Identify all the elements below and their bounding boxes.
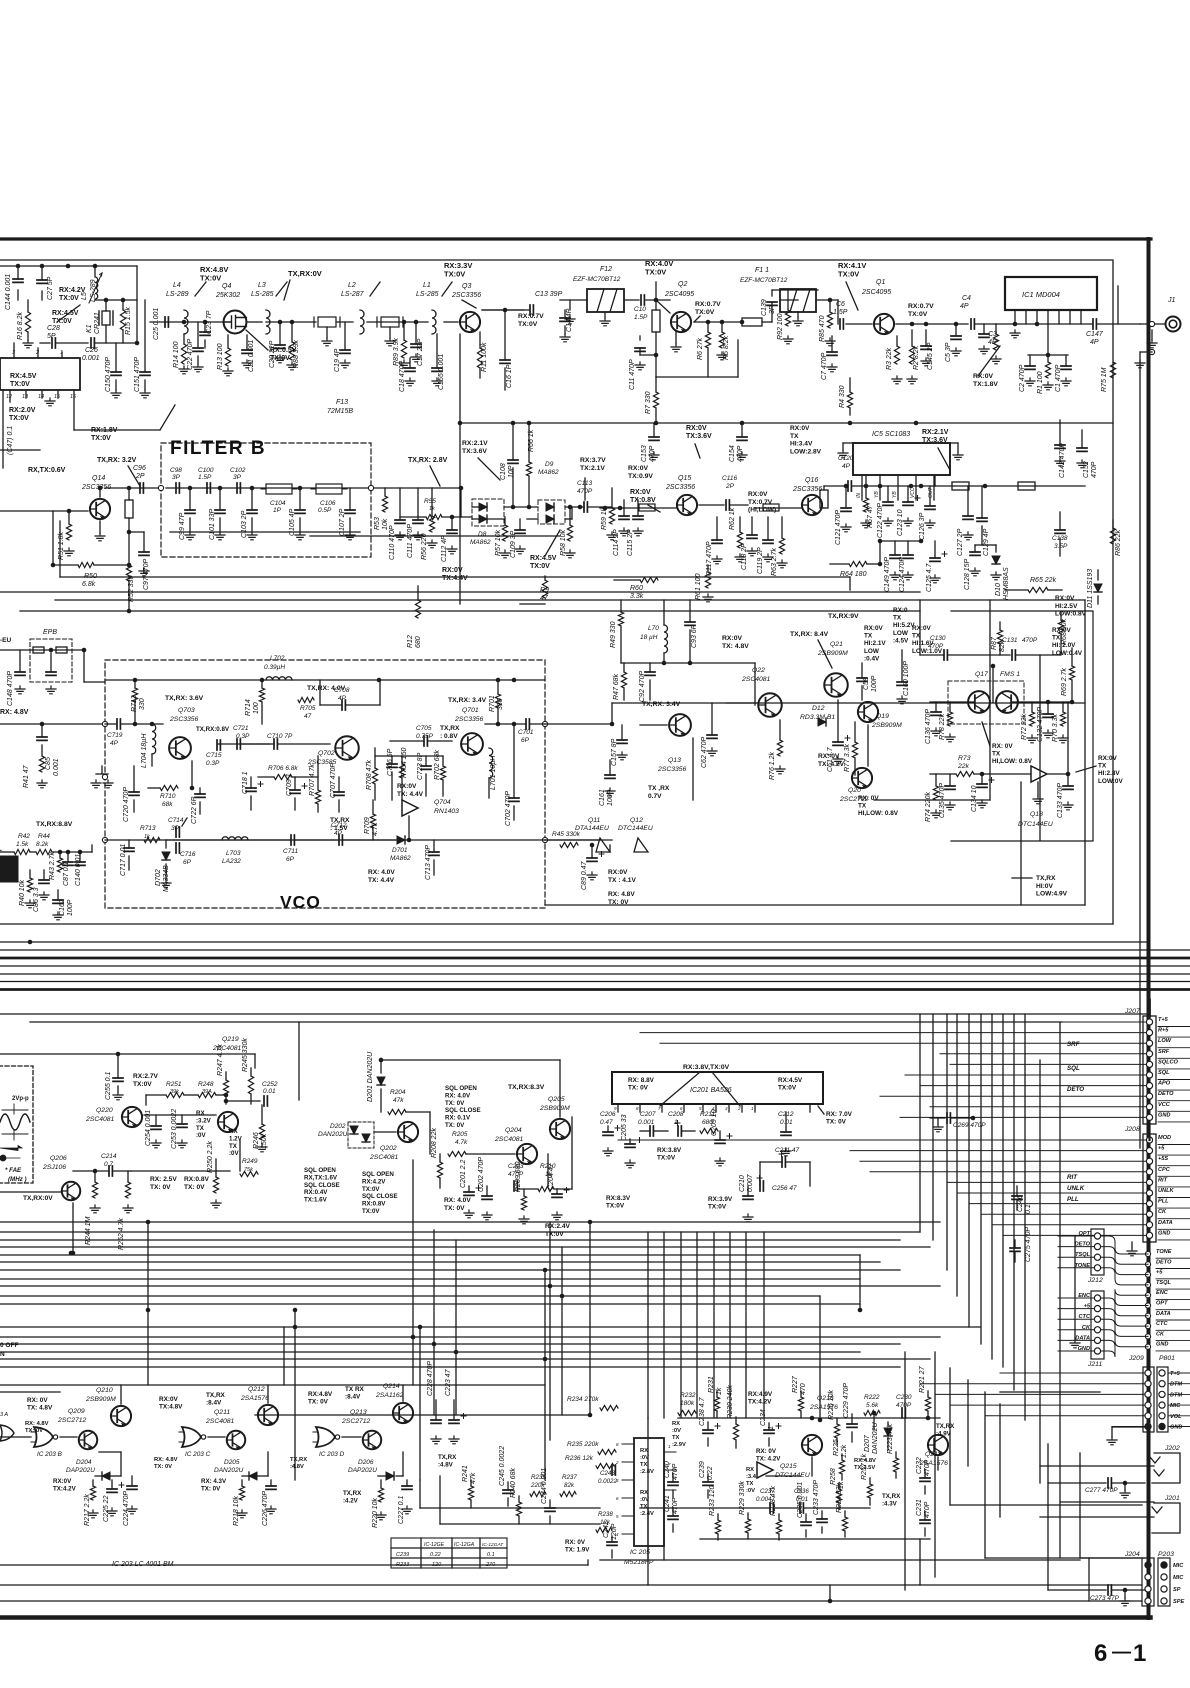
wire left drop xyxy=(2,390,4,468)
resistor R221 xyxy=(927,1391,929,1397)
resistor R2 xyxy=(911,330,913,346)
svg-text:RX:0V: RX:0V xyxy=(442,567,463,574)
svg-text:HSM88AS: HSM88AS xyxy=(1003,567,1010,600)
resistor R40 xyxy=(29,870,31,878)
svg-text:C116: C116 xyxy=(722,475,737,482)
svg-text:0.3P: 0.3P xyxy=(206,760,220,767)
svg-text:0.5P: 0.5P xyxy=(318,507,332,514)
resistor R88 xyxy=(291,322,293,342)
connector J211 pin DATA xyxy=(1094,1337,1100,1343)
svg-text:C702 470P: C702 470P xyxy=(505,791,512,826)
svg-text:2SC2712: 2SC2712 xyxy=(341,1418,371,1425)
capacitor C144 xyxy=(13,279,23,282)
capacitor C139 xyxy=(771,302,773,322)
svg-text:470P: 470P xyxy=(649,445,656,462)
svg-text:4P: 4P xyxy=(338,695,347,702)
svg-text:470P: 470P xyxy=(672,1463,679,1480)
resistor R43 xyxy=(59,852,61,858)
crystal C106 xyxy=(316,484,342,494)
svg-text:R702 68k: R702 68k xyxy=(434,750,441,780)
capacitor C244 xyxy=(549,1500,551,1508)
svg-text::0.4V: :0.4V xyxy=(864,655,880,662)
svg-text:2SB909M: 2SB909M xyxy=(871,722,902,729)
svg-text:RX:0V: RX:0V xyxy=(628,465,648,472)
svg-text:2SC4081: 2SC4081 xyxy=(85,1116,115,1123)
svg-text:TONE: TONE xyxy=(1156,1249,1172,1255)
svg-text:TX: 0V: TX: 0V xyxy=(445,1100,465,1107)
svg-text:C240: C240 xyxy=(664,1461,671,1478)
resistor R93 box xyxy=(742,318,762,326)
resistor R249 xyxy=(240,1171,258,1176)
svg-text:RX:0V: RX:0V xyxy=(159,1396,179,1403)
IC5 box xyxy=(853,443,950,475)
svg-text:C115 2P: C115 2P xyxy=(627,529,634,556)
bus wire ladder xyxy=(0,1269,900,1271)
junction xyxy=(146,1308,151,1313)
svg-text:DTA144EU: DTA144EU xyxy=(575,825,609,832)
connector J212 box xyxy=(1091,1229,1104,1275)
capacitor C714 xyxy=(176,827,179,837)
svg-text:RX:4.5V: RX:4.5V xyxy=(10,373,37,380)
connector P801 box xyxy=(1157,1367,1168,1432)
wire riser xyxy=(859,1255,861,1310)
svg-text::3.2V: :3.2V xyxy=(196,1117,212,1124)
svg-text:12: 12 xyxy=(6,394,12,400)
svg-text:C144 0.001: C144 0.001 xyxy=(5,274,12,310)
svg-text:DATA: DATA xyxy=(1158,1220,1173,1226)
filter bottom rail xyxy=(170,531,360,533)
svg-text:C122 470P: C122 470P xyxy=(877,503,884,538)
svg-text:D12: D12 xyxy=(812,705,825,712)
wire risers xyxy=(919,600,921,655)
svg-text:N: N xyxy=(0,1351,5,1358)
resistor R707 xyxy=(317,756,319,790)
top RF block border xyxy=(0,260,1113,924)
svg-text:RX: 2.5V: RX: 2.5V xyxy=(150,1176,177,1183)
svg-text:TX,RX:0V: TX,RX:0V xyxy=(23,1195,53,1202)
svg-text:6P: 6P xyxy=(521,737,530,744)
svg-text:2SC4081: 2SC4081 xyxy=(494,1136,524,1143)
capacitor C702 xyxy=(513,724,515,798)
svg-text:R221 27: R221 27 xyxy=(919,1365,926,1393)
dual FET Q17 dashed xyxy=(948,681,1024,724)
wire IC5 out xyxy=(934,475,936,486)
svg-text:SQL: SQL xyxy=(1067,1065,1080,1072)
wire xyxy=(896,323,968,325)
svg-text:C99 47P: C99 47P xyxy=(179,512,186,540)
svg-text:100: 100 xyxy=(253,702,260,714)
svg-text:2SB909M: 2SB909M xyxy=(539,1105,570,1112)
svg-text:LOW:1.0V: LOW:1.0V xyxy=(912,648,943,655)
svg-text:470P: 470P xyxy=(1091,461,1098,478)
svg-text:0.01: 0.01 xyxy=(263,1088,276,1095)
svg-text:C717 0.01: C717 0.01 xyxy=(120,844,127,876)
capacitor C122 xyxy=(887,486,889,502)
black box left xyxy=(0,856,18,882)
svg-text:10P: 10P xyxy=(508,465,515,478)
svg-text:▪: ▪ xyxy=(0,848,2,854)
svg-text:470P: 470P xyxy=(924,1459,931,1476)
svg-text:OPT: OPT xyxy=(1156,1301,1168,1307)
wire xyxy=(374,487,460,489)
svg-text:470P: 470P xyxy=(924,1501,931,1518)
transistor Q16 xyxy=(802,495,822,516)
svg-text:Q4: Q4 xyxy=(222,283,231,290)
resistor R62 xyxy=(739,517,741,532)
resistor R250 xyxy=(215,1159,217,1177)
capacitor C62 xyxy=(711,703,713,735)
svg-text:RX: 0V: RX: 0V xyxy=(858,795,879,802)
resistor R257 xyxy=(869,1478,871,1484)
junction xyxy=(368,485,373,490)
svg-text:LOW: LOW xyxy=(893,630,909,637)
svg-text:R204: R204 xyxy=(390,1089,406,1096)
connector J207 pin GND xyxy=(1146,1114,1152,1120)
svg-text:RX:0.7V: RX:0.7V xyxy=(908,303,934,310)
resistor R217 xyxy=(92,1480,94,1486)
svg-text:RX:0V: RX:0V xyxy=(608,869,628,876)
svg-text:IC5 SC1083: IC5 SC1083 xyxy=(872,431,910,438)
svg-text:HI:2.8V: HI:2.8V xyxy=(1098,770,1120,777)
svg-text:R223 47k: R223 47k xyxy=(887,1424,894,1454)
svg-text:TX:0V: TX:0V xyxy=(908,311,928,318)
IC205 box xyxy=(634,1438,664,1546)
svg-text:C89 0.47: C89 0.47 xyxy=(581,860,588,890)
svg-text:HI,LOW: 0.8V: HI,LOW: 0.8V xyxy=(992,758,1033,765)
inductor L1 xyxy=(432,310,436,334)
svg-text:TX:4.4V: TX:4.4V xyxy=(442,575,468,582)
transistor Q2 xyxy=(671,312,691,333)
wire riser xyxy=(991,1014,993,1359)
svg-text:1P: 1P xyxy=(273,507,282,514)
resistor R218 xyxy=(241,1480,243,1486)
svg-text:L1: L1 xyxy=(423,282,431,289)
capacitor C108 xyxy=(512,423,514,460)
svg-text:TX,RX: 3.4V: TX,RX: 3.4V xyxy=(448,697,487,704)
capacitor C241 xyxy=(672,1508,674,1516)
svg-text:SQL CLOSE: SQL CLOSE xyxy=(445,1107,481,1114)
svg-text:2SC4081: 2SC4081 xyxy=(205,1418,235,1425)
resistor R50 xyxy=(53,564,78,566)
wire pins below xyxy=(9,390,11,402)
svg-text:TX,RX: 3.2V: TX,RX: 3.2V xyxy=(97,457,137,464)
svg-text:R6 27k: R6 27k xyxy=(697,337,704,360)
svg-text:2Vp-p: 2Vp-p xyxy=(12,1096,29,1102)
resistor R87 xyxy=(999,622,1001,630)
svg-text:C86 3.3: C86 3.3 xyxy=(33,887,40,912)
svg-text:RX: 4.8V: RX: 4.8V xyxy=(154,1457,178,1463)
junction xyxy=(418,1325,423,1330)
svg-text::4.9V: :4.9V xyxy=(936,1430,952,1437)
svg-text:47: 47 xyxy=(304,713,312,720)
svg-text:Q15: Q15 xyxy=(678,475,691,482)
svg-text:TX: TX xyxy=(893,615,902,622)
capacitor C232 xyxy=(924,1470,926,1478)
inductor L2 xyxy=(360,310,364,334)
svg-text:3P: 3P xyxy=(769,305,776,314)
wire mid rails xyxy=(60,576,850,578)
svg-text:R51 1.8k: R51 1.8k xyxy=(58,531,65,560)
capacitor C273 xyxy=(1048,1589,1106,1591)
wire riser xyxy=(549,1222,551,1440)
svg-text:LS-285: LS-285 xyxy=(251,291,274,298)
svg-text:8.2k: 8.2k xyxy=(36,841,49,848)
svg-text:1: 1 xyxy=(1133,1640,1146,1667)
capacitor C204 xyxy=(556,1189,558,1194)
svg-text:TX:0V: TX:0V xyxy=(778,1085,797,1092)
connector J207 pin SRF xyxy=(1146,1051,1152,1057)
resistor R68 xyxy=(1060,612,1062,620)
capacitor C717 xyxy=(128,840,130,848)
resistor R66 xyxy=(528,423,530,462)
waveform dashed box xyxy=(0,1066,33,1183)
ground xyxy=(91,780,101,788)
svg-text:DAP202U: DAP202U xyxy=(66,1467,95,1474)
capacitor C214 xyxy=(109,1166,112,1176)
svg-text:CR241: CR241 xyxy=(94,312,101,334)
ground J212 xyxy=(1074,1236,1076,1340)
resistor R224 xyxy=(844,1511,846,1517)
resistor R220 xyxy=(380,1480,382,1488)
svg-text:SPE: SPE xyxy=(1173,1599,1184,1605)
wire riser mid xyxy=(729,1232,731,1418)
svg-text:RX: 0V: RX: 0V xyxy=(756,1448,777,1455)
svg-text:RX: 4.0V: RX: 4.0V xyxy=(368,869,395,876)
junction xyxy=(432,1342,437,1347)
svg-text:D202: D202 xyxy=(330,1123,346,1130)
IC201 pins xyxy=(617,1104,619,1112)
svg-text:RX:4.5V: RX:4.5V xyxy=(530,555,557,562)
capacitor C119 xyxy=(767,517,769,540)
svg-text:0.47: 0.47 xyxy=(600,1119,613,1126)
resistor R16 xyxy=(27,300,29,312)
svg-text::0V: :0V xyxy=(746,1488,755,1494)
svg-text:470P: 470P xyxy=(672,1497,679,1514)
resistor R74 xyxy=(935,774,937,786)
svg-text:F12: F12 xyxy=(600,266,612,273)
wire gates xyxy=(120,1385,122,1404)
resistor R209 xyxy=(523,1189,525,1196)
svg-text:RX: 4.0V: RX: 4.0V xyxy=(444,1197,471,1204)
svg-text:L702: L702 xyxy=(270,655,285,662)
svg-text:R72 22k: R72 22k xyxy=(1021,713,1028,740)
capacitor C138 xyxy=(1059,512,1061,530)
svg-text:R14 100: R14 100 xyxy=(173,341,180,368)
svg-text:R85 470: R85 470 xyxy=(819,315,826,342)
transistor Q3 xyxy=(444,321,458,323)
crystal C104 xyxy=(266,484,292,494)
svg-text:R2 8.2k: R2 8.2k xyxy=(913,345,920,370)
svg-text:RX: RX xyxy=(640,1448,648,1454)
wire xyxy=(375,755,443,757)
wire xyxy=(99,521,101,533)
svg-text:C255 0.1: C255 0.1 xyxy=(105,1071,112,1100)
svg-text:C138: C138 xyxy=(1052,535,1068,542)
capacitor C715 xyxy=(217,740,220,750)
svg-text:2SB909M: 2SB909M xyxy=(817,650,848,657)
capacitor C13 xyxy=(482,309,524,311)
svg-text:SP: SP xyxy=(1173,1587,1181,1593)
wire xyxy=(0,851,14,853)
svg-text:TX: 0V: TX: 0V xyxy=(445,1122,465,1129)
svg-text:-EU: -EU xyxy=(0,637,12,644)
svg-text:CTC: CTC xyxy=(1156,1321,1168,1327)
IC1 pins xyxy=(1014,310,1016,324)
svg-text:R65 22k: R65 22k xyxy=(1030,577,1057,584)
wire xyxy=(298,1022,300,1100)
wire J204 link xyxy=(985,1557,1142,1559)
svg-text:TX,RX: TX,RX xyxy=(206,1392,226,1399)
svg-text:C98: C98 xyxy=(170,467,182,474)
capacitor C148 xyxy=(19,650,21,672)
svg-text:RX: 0V: RX: 0V xyxy=(992,743,1013,750)
svg-text:TX: 4.2V: TX: 4.2V xyxy=(818,761,845,768)
svg-text:C715: C715 xyxy=(206,752,222,759)
capacitor C142 xyxy=(1059,420,1061,445)
wire riser mid xyxy=(680,1232,682,1418)
svg-text:Q21: Q21 xyxy=(830,641,843,648)
svg-text:TX:0V: TX:0V xyxy=(657,1155,676,1162)
svg-text:C16 1P: C16 1P xyxy=(506,364,513,388)
svg-text:D10: D10 xyxy=(995,583,1002,596)
svg-text:RX:0V: RX:0V xyxy=(1098,755,1118,762)
svg-text:: 0.8V: : 0.8V xyxy=(440,733,458,740)
svg-text:Q2: Q2 xyxy=(678,281,687,288)
capacitor C6 xyxy=(840,319,843,329)
svg-text:C114 2P: C114 2P xyxy=(613,529,620,556)
EPB dashed box xyxy=(30,639,72,682)
svg-text:C7 470P: C7 470P xyxy=(821,352,828,380)
svg-text:C129 4P: C129 4P xyxy=(983,528,990,556)
capacitor C113 xyxy=(584,502,587,512)
FET Q4 xyxy=(224,311,247,334)
svg-text:L4: L4 xyxy=(173,282,181,289)
svg-text:R701: R701 xyxy=(489,695,496,712)
bus wire xyxy=(30,1021,1062,1023)
capacitor C112 xyxy=(451,517,453,530)
svg-text:PLL: PLL xyxy=(1158,1199,1169,1205)
svg-text:Q16: Q16 xyxy=(805,477,818,484)
wire riser xyxy=(419,1327,421,1480)
svg-text:C139: C139 xyxy=(761,299,768,316)
resistor R61 xyxy=(707,565,709,572)
wire riser mid xyxy=(745,1232,747,1418)
resistor R228 xyxy=(778,1514,780,1520)
svg-text:C233 470P: C233 470P xyxy=(813,1480,820,1515)
svg-text:R246: R246 xyxy=(253,1132,260,1149)
svg-text:R74 220k: R74 220k xyxy=(925,792,932,822)
filter F12 xyxy=(587,289,624,312)
capacitor C235 xyxy=(805,1514,807,1522)
wire xyxy=(975,323,996,325)
capacitor C252 xyxy=(264,1096,267,1106)
outer frame bottom border xyxy=(0,1615,1151,1620)
capacitor C210 xyxy=(747,1186,749,1196)
svg-text:C253 0.0022: C253 0.0022 xyxy=(171,1109,178,1149)
variable coil L5 xyxy=(94,266,96,276)
junction xyxy=(548,1284,553,1289)
wire riser xyxy=(147,1222,149,1310)
capacitor C226 xyxy=(270,1480,272,1486)
svg-text:C225 22: C225 22 xyxy=(103,1495,110,1522)
resistor R709 xyxy=(372,800,374,814)
svg-text:C121 470P: C121 470P xyxy=(835,510,842,545)
svg-text:TX: TX xyxy=(864,633,873,640)
connector J212 pin TSQL xyxy=(1094,1254,1100,1260)
capacitor C722 xyxy=(199,788,201,794)
svg-text:0.3P: 0.3P xyxy=(236,733,250,740)
svg-text:DAN202U: DAN202U xyxy=(214,1467,244,1474)
svg-text:J211: J211 xyxy=(1087,1361,1102,1368)
wire q206 xyxy=(72,1203,74,1253)
svg-text:TX:2.1V: TX:2.1V xyxy=(580,465,605,472)
svg-text:C26: C26 xyxy=(85,347,98,354)
svg-text:GND: GND xyxy=(1158,1230,1170,1236)
opamp Q215 xyxy=(757,1462,773,1478)
bus wire ladder xyxy=(0,1239,900,1241)
svg-text:TX:1.8V: TX:1.8V xyxy=(973,381,998,388)
svg-text:GND: GND xyxy=(1170,1425,1182,1431)
svg-text::0V: :0V xyxy=(672,1428,681,1434)
bus wire ladder xyxy=(0,1254,860,1256)
capacitor C723 xyxy=(425,756,427,766)
transistor Q701 xyxy=(461,733,483,755)
svg-text:RX: 8.8V: RX: 8.8V xyxy=(628,1077,655,1084)
svg-text:D701: D701 xyxy=(392,847,408,854)
svg-text:MA862: MA862 xyxy=(470,539,491,546)
resistor R248 xyxy=(198,1092,216,1097)
svg-text:R245 330k: R245 330k xyxy=(242,1038,249,1072)
wire filter main xyxy=(166,487,371,489)
capacitor C132 xyxy=(1047,702,1049,714)
svg-text:C701: C701 xyxy=(518,729,534,736)
resistor R77 xyxy=(854,722,856,742)
bus wire bottom rail 3 xyxy=(0,1600,1142,1602)
svg-text:TX: 4.4V: TX: 4.4V xyxy=(368,877,395,884)
svg-text:TX:0V: TX:0V xyxy=(362,1208,380,1215)
svg-text:3P: 3P xyxy=(233,474,242,481)
pin CTC xyxy=(1145,1324,1150,1329)
svg-text:SQL: SQL xyxy=(1158,1070,1170,1076)
ground xyxy=(838,450,848,458)
svg-text:Q701: Q701 xyxy=(462,707,479,714)
svg-text:Q215: Q215 xyxy=(780,1463,797,1470)
capacitor C209 xyxy=(719,1131,721,1140)
transistor Q17b xyxy=(996,691,1018,713)
svg-text:C140 0.01: C140 0.01 xyxy=(75,854,82,886)
connector J208 pin +5S xyxy=(1146,1158,1152,1164)
capacitor C277 xyxy=(1048,1482,1106,1484)
resistor R9 xyxy=(520,603,545,605)
svg-text:R250 2.2k: R250 2.2k xyxy=(207,1141,214,1173)
svg-text:Q702: Q702 xyxy=(318,750,335,757)
svg-text:HI:0V: HI:0V xyxy=(1036,883,1053,890)
svg-text:DAN202U: DAN202U xyxy=(318,1131,348,1138)
wire xyxy=(336,321,353,323)
resistor R240 xyxy=(518,1496,520,1502)
svg-text:TX: TX xyxy=(640,1462,648,1468)
inductor L4 xyxy=(184,310,188,334)
capacitor C135 xyxy=(949,774,951,786)
bus wire ladder xyxy=(0,1351,860,1353)
capacitor C707 xyxy=(338,777,340,792)
wire xyxy=(867,725,869,766)
svg-text:HI:1.6V: HI:1.6V xyxy=(912,640,934,647)
svg-text:47k: 47k xyxy=(393,1097,404,1104)
svg-text:R67 47: R67 47 xyxy=(867,504,874,528)
svg-text:CK: CK xyxy=(1158,1209,1167,1215)
pin DATA xyxy=(1145,1313,1150,1318)
